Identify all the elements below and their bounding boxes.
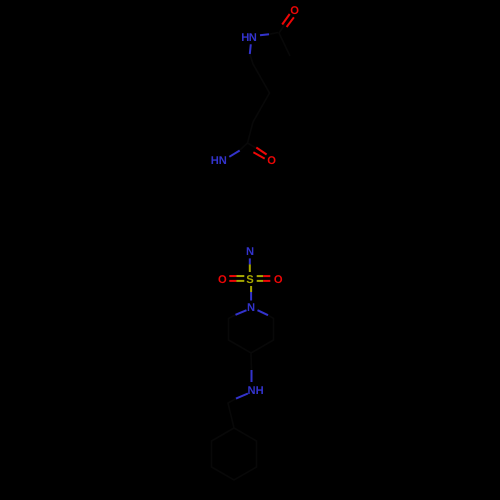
- atom N1 top amide nitrogen label HN: [241, 32, 257, 44]
- svg-text:H: H: [211, 155, 219, 167]
- faint carbon skeleton fragment B (benzyl ring): [212, 399, 257, 480]
- bond N2-C6 blue half up-right: [229, 151, 239, 157]
- bond N4-C ring blue half down-left: [236, 310, 247, 315]
- faint carbon skeleton fragment A (acetamide chain): [240, 24, 290, 150]
- svg-text:N: N: [219, 155, 227, 167]
- bond N1-C1 blue half: [260, 34, 269, 35]
- bond N1-C2 blue half going down: [250, 44, 251, 54]
- bond C6=O2 double bond red halves: [253, 148, 266, 159]
- svg-text:O: O: [274, 274, 283, 286]
- svg-text:H: H: [256, 385, 264, 397]
- svg-text:N: N: [246, 246, 254, 258]
- svg-text:O: O: [267, 155, 276, 167]
- faint carbon skeleton fragment B (piperidine ring): [229, 315, 274, 370]
- bond S1-N4 yellow then blue halves: [250, 286, 252, 292]
- bond N4-C ring blue half down-right: [258, 310, 269, 315]
- svg-text:O: O: [290, 5, 299, 17]
- bond C1=O1 double bond red halves: [282, 14, 294, 27]
- atom N2 mid amide nitrogen label HN: [211, 155, 227, 167]
- svg-text:S: S: [246, 274, 254, 286]
- bond N5-CH2 blue half down-left: [236, 394, 248, 399]
- svg-text:O: O: [218, 274, 227, 286]
- bond C4(ring)-N5 blue half vertical: [251, 370, 253, 382]
- svg-text:N: N: [249, 32, 257, 44]
- atom N5 amine nitrogen label NH: [248, 385, 264, 397]
- svg-text:N: N: [247, 302, 255, 314]
- bond S1=O4 double bond right: [257, 276, 271, 281]
- bond N3-S blue then yellow halves: [249, 258, 251, 264]
- svg-text:N: N: [248, 385, 256, 397]
- bond S1=O3 double bond left: [229, 276, 244, 281]
